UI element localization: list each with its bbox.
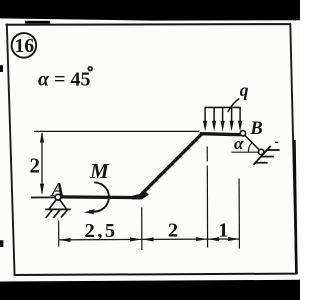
svg-text:2,5: 2,5 xyxy=(84,220,117,242)
alpha reference line xyxy=(232,151,259,153)
roller link B xyxy=(245,135,260,150)
svg-text:2: 2 xyxy=(168,220,178,242)
dimension 2 arrows xyxy=(40,132,44,195)
problem number circle 16 xyxy=(12,33,37,58)
svg-text:16: 16 xyxy=(15,36,35,57)
inclined ground line at B xyxy=(254,146,271,165)
extension line below A xyxy=(58,221,60,247)
frame border right lower thick xyxy=(294,140,296,274)
extension line below upper bend xyxy=(206,147,208,162)
degree ring xyxy=(88,67,92,71)
frame border left xyxy=(7,24,15,276)
moment M arrowhead xyxy=(84,209,95,214)
svg-text:B: B xyxy=(249,119,262,139)
wire: beam thin left overhang xyxy=(31,196,58,198)
beam diagonal xyxy=(139,134,202,197)
ground hatching at B xyxy=(255,150,280,163)
beam lower horizontal xyxy=(57,195,140,199)
pin support A circle xyxy=(55,194,61,200)
pin at B circle xyxy=(240,131,245,136)
top border blob xyxy=(25,21,50,24)
pin support A triangle xyxy=(45,200,71,218)
small dash right xyxy=(275,142,278,144)
q leader line xyxy=(228,99,240,113)
bend wedge xyxy=(132,192,149,199)
pin support A hatching xyxy=(46,210,52,218)
alpha arc xyxy=(248,142,252,152)
extension line below B xyxy=(238,179,240,249)
svg-text:M: M xyxy=(89,159,110,183)
svg-text:1: 1 xyxy=(218,220,228,242)
top black band xyxy=(0,0,300,21)
pin support A base xyxy=(45,208,71,210)
dimension line 2,5 xyxy=(59,238,141,241)
edge tick lower left xyxy=(0,240,3,247)
beam upper horizontal xyxy=(200,134,241,135)
frame border right xyxy=(290,24,296,275)
edge tick upper left xyxy=(0,65,3,72)
roller circle xyxy=(259,149,264,154)
dimension line 2 xyxy=(142,238,207,240)
svg-text:2: 2 xyxy=(29,154,40,178)
extension line below lower bend xyxy=(141,208,143,251)
distributed load q top line xyxy=(205,106,241,108)
frame border top xyxy=(6,23,292,26)
frame border bottom xyxy=(14,274,297,275)
wire: top extension line xyxy=(34,130,200,132)
svg-text:α: α xyxy=(234,134,244,153)
svg-text:q: q xyxy=(240,80,249,100)
dimension 2 vertical line xyxy=(41,133,43,194)
bottom black band xyxy=(0,280,300,300)
dimension line 1 xyxy=(208,238,239,240)
moment M arc xyxy=(89,182,109,211)
distributed load arrows xyxy=(205,107,240,122)
svg-text:α = 45: α = 45 xyxy=(38,68,90,90)
